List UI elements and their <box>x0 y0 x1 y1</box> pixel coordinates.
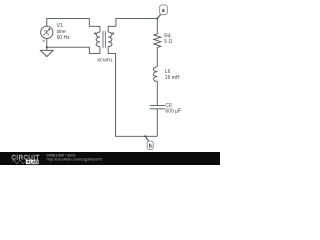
wire top-left from V1 to transformer primary <box>47 18 90 26</box>
probe a lead <box>157 15 160 19</box>
transformer core <box>103 31 105 48</box>
wire capacitor to bottom rail <box>156 109 158 137</box>
V1 sine glyph <box>43 29 50 36</box>
wire primary top pin stub <box>89 18 100 32</box>
svg-text:600 µF: 600 µF <box>165 109 181 115</box>
transformer XFMR1 secondary winding <box>108 32 112 47</box>
wire inductor to capacitor <box>156 81 158 105</box>
inductor L6 <box>153 67 157 82</box>
secondary polarity dot <box>112 32 114 34</box>
svg-text:a: a <box>162 8 165 14</box>
svg-text:LAB: LAB <box>30 160 39 165</box>
ground <box>40 47 53 56</box>
capacitor C6 <box>150 105 165 108</box>
probe a <box>160 5 168 15</box>
wire bottom rail to secondary bottom pin <box>108 47 157 137</box>
junction node b on bottom rail <box>144 135 146 137</box>
probe b <box>147 141 153 150</box>
svg-text:60 Hz: 60 Hz <box>57 35 71 41</box>
junction node at V1 ground <box>46 46 48 48</box>
voltage source V1 <box>41 26 53 38</box>
probe b lead <box>145 136 149 141</box>
resistor R4 <box>154 18 161 47</box>
wire top-right from transformer secondary to node a <box>116 17 157 19</box>
transformer XFMR1 primary winding <box>96 32 100 47</box>
wire resistor to inductor <box>156 47 158 66</box>
V1 minus mark <box>42 40 45 42</box>
svg-text:http://circuitlab.com/c/gjxkhp: http://circuitlab.com/c/gjxkhp97b <box>47 156 102 161</box>
junction node a <box>156 17 158 19</box>
wire V1 bottom lead <box>46 39 48 48</box>
svg-text:b: b <box>149 144 152 150</box>
footer banner <box>0 152 220 165</box>
wire ground bus to primary bottom pin <box>47 47 100 54</box>
primary polarity dot <box>94 32 96 34</box>
logo LAB box <box>26 160 39 165</box>
wire secondary top pin stub <box>108 18 116 32</box>
svg-text:5 Ω: 5 Ω <box>164 39 172 45</box>
logo sine squiggle <box>13 160 25 163</box>
svg-text:16 mH: 16 mH <box>165 75 180 81</box>
svg-text:XFMR1: XFMR1 <box>97 58 113 63</box>
